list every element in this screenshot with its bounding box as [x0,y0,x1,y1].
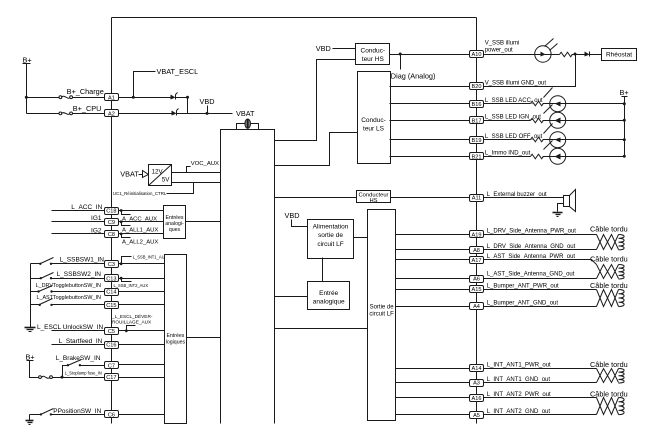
svg-text:C13: C13 [106,276,116,282]
wire C15 to logic box [119,304,165,306]
svg-text:logiques: logiques [166,340,186,346]
svg-text:L_ASTTogglebuttonSW_IN: L_ASTTogglebuttonSW_IN [36,295,101,301]
svg-text:VBD: VBD [316,44,331,53]
wire LED OFF to bus [566,139,625,141]
svg-text:C16: C16 [106,343,116,349]
junction dot ACC bus [623,102,626,105]
stub A_ALL1_AUX [122,222,131,226]
wire switch bus [30,264,32,328]
wire main block to HS2 [275,197,357,199]
regulator U2 12V/5V [149,165,172,186]
wire diode to rheostat box [590,54,602,56]
svg-text:B+_Charge: B+_Charge [67,87,104,96]
wire sortie to A8 [396,249,470,251]
resistor Immo IND [531,154,544,159]
svg-text:L_Startfeed_IN: L_Startfeed_IN [59,338,103,345]
wire sortie to A4 [396,306,470,308]
svg-text:Diag (Analog): Diag (Analog) [391,71,436,80]
svg-text:L_Bumper_ANT_PWR_out: L_Bumper_ANT_PWR_out [487,284,559,290]
svg-text:Câble tordu: Câble tordu [590,360,628,369]
svg-text:B17: B17 [472,118,482,124]
svg-text:C6: C6 [108,413,115,419]
wire switch to C14 [52,291,105,293]
switch brake [67,360,82,367]
wire switch to C3 [52,263,105,265]
module left edge wire [111,18,113,424]
wire diag stub [400,55,402,70]
stub ESCL deverrouillage [127,326,136,331]
svg-text:VBAT: VBAT [236,109,255,118]
connector A14 [470,365,484,373]
connector C5 [105,328,119,335]
wire Startfeed row [52,344,105,346]
junction dot VBD tap [206,112,209,115]
connector C6 [105,411,119,419]
wire ESCL unlock row [52,330,105,332]
svg-text:V_SSB illumi: V_SSB illumi [485,40,520,46]
LED indicator Immo [543,141,566,165]
junction dot Immo bus [623,155,626,158]
wire C5 to logic box [119,330,165,332]
junction dot C18 [120,209,123,212]
resistor LED IGN [531,118,544,123]
wire sortie to A17 [396,259,470,261]
wire LS to B17 [390,120,470,122]
stub VOC_AUX label [187,167,191,173]
wire VBAT_ESCL stub [134,72,156,98]
wire A5 row external [484,414,597,416]
svg-text:sortie de: sortie de [318,232,343,239]
wire ground to switch [30,414,41,416]
wire A19 row external [484,234,597,236]
switch ASTToggle [39,299,53,307]
svg-text:A10: A10 [472,52,482,58]
svg-text:A15: A15 [472,287,482,293]
wire junction up to brake switch [63,366,68,378]
speaker buzzer [564,190,576,212]
fuse on main block top [237,119,259,130]
wire switch to C13 [52,278,105,280]
junction dot OFF bus [623,138,626,141]
svg-text:B19: B19 [472,138,482,144]
svg-text:VBD: VBD [200,97,215,106]
svg-text:L_Bumper_ANT_GND_out: L_Bumper_ANT_GND_out [487,300,559,306]
junction dot C3 [120,262,123,265]
junction dot VBAT_ESCL tap [132,96,135,99]
junction dot C5 [125,329,128,332]
wire C13 to logic box [119,278,165,280]
connector C7 [105,362,119,370]
svg-text:A3: A3 [473,381,480,387]
lamp illumination [535,39,558,63]
svg-text:C3: C3 [108,262,115,268]
wire fuse to A2 [73,113,105,115]
diode D1 [171,93,178,100]
svg-text:A5: A5 [473,413,480,419]
wire sortie to A15 [396,289,470,291]
wire B+ brake stem [30,361,39,378]
connector A2 [105,110,119,118]
svg-text:L_Immo IND_out: L_Immo IND_out [485,151,531,157]
switch DRVToggle [37,286,52,293]
svg-text:A16: A16 [472,396,482,402]
wire IG2 external [52,233,105,235]
node B+ top-left [23,56,32,65]
buffer triangle [143,171,149,178]
connector C13 [105,275,119,283]
wire sortie to A14 [396,368,470,370]
twisted cable 1 [597,235,625,250]
wire A15 row external [484,289,597,291]
block Conducteur LS [358,72,391,164]
svg-text:Entrées: Entrées [166,333,184,339]
connector C16 [105,342,119,349]
svg-text:C14: C14 [106,290,116,296]
svg-text:circuit LF: circuit LF [317,241,343,248]
wire LED IGN to bus [566,120,625,122]
diode D2 [172,109,179,116]
junction dot C8 [120,233,123,236]
svg-text:L_SSBSW2_IN: L_SSBSW2_IN [57,271,102,278]
svg-text:HS: HS [369,198,377,204]
svg-text:B16: B16 [472,102,482,108]
svg-text:IG1: IG1 [91,215,102,222]
wire B+_Charge row left [27,97,60,99]
twisted cable 5 [597,398,625,415]
wire SSBSW1 row [31,263,41,265]
twisted cable 4 [597,369,625,384]
wire C17 to logic box [119,377,165,379]
svg-text:Câble tordu: Câble tordu [590,254,628,263]
svg-text:VBAT: VBAT [120,169,139,178]
wire LED ACC to bus [566,103,625,105]
wire fuse to junction [53,377,63,379]
fuse stoplamp [39,376,53,379]
svg-text:VOC_AUX: VOC_AUX [191,161,219,167]
wire entree analogique to main block [275,296,308,298]
svg-text:Conduc-: Conduc- [361,117,386,124]
wire B+ LED bus [624,97,626,157]
wire B+ stem down to rows [26,64,28,114]
connector C9 [105,219,119,226]
junction dot stoplamp [61,376,64,379]
wire SSBSW2 row [31,278,41,280]
junction dot diag [399,53,402,56]
connector B20 [470,83,484,91]
wire logic box to main block [187,337,221,339]
wire C8 to analog box [119,233,164,235]
wire LS to B20 [390,86,470,88]
connector A4 [470,303,484,311]
wire B+_CPU row left [27,113,60,115]
wire B17 row [484,120,531,122]
svg-text:A19: A19 [472,232,482,238]
wire HS1 to A10 [390,54,470,56]
svg-text:A11: A11 [472,196,482,202]
ground speaker [553,213,563,217]
svg-text:L_ESCL UnlockSW_IN: L_ESCL UnlockSW_IN [37,324,104,331]
block Alimentation sortie de circuit LF [308,220,354,259]
svg-text:A14: A14 [472,366,482,372]
svg-text:L_SSB_INT1_AUX: L_SSB_INT1_AUX [133,254,168,259]
junction dot C13 [120,277,123,280]
fuse B+_Charge [59,96,73,99]
svg-text:power_out: power_out [485,47,513,53]
wire HS2 to A11 [391,197,470,199]
fuse B+_CPU [59,112,73,115]
wire B19 row [484,139,531,141]
connector B21 [470,153,484,161]
diode D3 [585,52,590,57]
wire row2 to VBAT [177,113,233,115]
svg-text:L_DRVTogglebuttonSW_IN: L_DRVTogglebuttonSW_IN [36,283,101,289]
switch SSBSW1 [39,258,53,265]
svg-text:Rhéostat: Rhéostat [606,52,632,59]
svg-text:C8: C8 [108,232,115,238]
wire VBD stub [207,106,209,114]
svg-text:ques: ques [169,227,181,233]
wire diode to corner [176,97,188,99]
svg-text:IG2: IG2 [91,227,102,234]
svg-text:A_ALL1_AUX: A_ALL1_AUX [122,228,158,234]
connector A3 [470,380,484,387]
resistor LED ACC [531,101,544,106]
connector A8 [470,247,484,254]
connector A17 [470,257,484,264]
wire switch to C6 [51,414,105,416]
stub A_ACC_AUX [122,211,131,215]
wire sortie to A16 [396,397,470,399]
svg-text:Câble tordu: Câble tordu [590,281,628,290]
resistor rheostat row [560,52,573,57]
block Entrees analogiques [164,206,186,239]
switch SSBSW2 [40,273,54,280]
wire B20 return loop [484,55,576,87]
wire sortie to A5 [396,414,470,416]
junction dot C9 [120,220,123,223]
svg-text:A2: A2 [108,112,115,118]
wire C7 to logic box [119,364,165,366]
junction dot IGN bus [623,119,626,122]
twisted cable 2 [597,265,625,280]
connector C14 [105,289,119,296]
wire LS to B21 [390,156,470,158]
connector B17 [470,117,484,125]
svg-text:C18: C18 [106,209,116,215]
junction dot rheostat [574,53,577,56]
LED indicator OFF [543,124,566,148]
wire stoplamp row to C17 [63,377,105,379]
wire C16 to logic box [119,344,165,346]
wire VBAT to buffer [139,174,143,176]
svg-text:C17: C17 [106,375,116,381]
wire sortie to A3 [396,382,470,384]
wire switch to C15 [52,304,105,306]
wire resistor to diode [572,54,585,56]
svg-text:teur HS: teur HS [362,56,385,63]
stub L_SSB_INT2_AUX [122,279,132,282]
stub A_ALL2_AUX [122,234,131,238]
svg-text:A1: A1 [108,95,115,101]
wire C6 to logic box [119,414,165,416]
svg-text:A4: A4 [473,304,480,310]
wire alim to entree analogique [322,258,324,282]
connector C18 [105,208,119,215]
svg-text:VBD: VBD [285,211,300,220]
connector A6 [470,276,484,283]
svg-text:C7: C7 [108,363,115,369]
block Entrees logiques [165,255,187,424]
svg-text:C15: C15 [106,303,116,309]
wire C9 to analog box [119,221,164,223]
svg-text:5V: 5V [162,177,170,184]
ground switch bus [25,328,36,332]
svg-text:A6: A6 [473,277,480,283]
junction dot B+ row1 [25,96,28,99]
svg-text:L_Stoplamp fuse_IN: L_Stoplamp fuse_IN [65,370,102,375]
block Rheostat [602,49,637,61]
block Conducteur HS 1 [356,44,390,65]
wire A8 row external [484,249,597,251]
connector C15 [105,302,119,310]
wire A10 to lamp [484,54,535,56]
wire B21 row [484,156,531,158]
connector B16 [470,101,484,108]
svg-text:Sortie de: Sortie de [370,305,395,311]
svg-text:B+_CPU: B+_CPU [73,104,102,113]
wire DRVToggle row [31,291,39,293]
svg-text:VBAT_ESCL: VBAT_ESCL [157,67,199,76]
svg-text:C5: C5 [108,329,115,335]
wire lamp to resistor [552,54,560,56]
label V_SSB illumi power_out [485,40,520,53]
svg-text:UC1_Réinitialisation_CTRL: UC1_Réinitialisation_CTRL [113,191,167,196]
svg-text:circuit LF: circuit LF [369,311,394,317]
wire brake switch to C7 [80,365,105,367]
connector C3 [105,261,119,268]
node B+ brake [26,353,35,362]
svg-text:B+: B+ [620,88,629,97]
svg-text:L_INT_ANT1_PWR_out: L_INT_ANT1_PWR_out [487,362,551,368]
main block U1 outline [221,130,275,424]
wire A1 to diode [119,97,171,99]
svg-text:Entrée: Entrée [319,290,339,297]
ground PPosition [26,415,34,425]
svg-text:Alimentation: Alimentation [313,224,349,231]
connector A1 [105,94,119,102]
connector C8 [105,231,119,239]
wire B16 row [484,103,531,105]
svg-text:PPositionSW_IN: PPositionSW_IN [53,408,101,415]
svg-text:L_BrakeSW_IN: L_BrakeSW_IN [56,355,101,362]
label L_ESCL_DEVERROUILLAGE_AUX [111,313,153,324]
wire A2 to diode [119,113,172,115]
wire IG1 external [52,221,105,223]
twisted cable 3 [597,290,625,307]
wire main block to LS [275,133,358,166]
wire C18 to analog box [119,210,164,212]
wire LS to B19 [390,139,470,141]
wire A11 to speaker [484,197,564,199]
connector A16 [470,395,484,402]
wire A14 row external [484,368,597,370]
svg-text:Conduc-: Conduc- [361,48,386,55]
wire A16 row external [484,397,597,399]
svg-text:B21: B21 [472,154,482,160]
wire main block to sortie box [275,328,368,330]
svg-text:ROUILLAGE_AUX: ROUILLAGE_AUX [112,320,152,325]
block Entree analogique [308,282,350,310]
wire A4 row external [484,306,597,308]
wire L_ACC_IN external [52,210,105,212]
wire sortie to A19 [396,234,470,236]
node B+ LED bus [620,88,629,97]
connector A15 [470,286,484,294]
wire VBD to HS1 [333,48,356,50]
module top edge wire [112,17,477,19]
svg-text:A_ALL2_AUX: A_ALL2_AUX [122,240,158,246]
LED indicator IGN [543,105,566,129]
wire fuse to A1 [73,97,105,99]
svg-text:L_SSB_INT2_AUX: L_SSB_INT2_AUX [114,283,149,288]
svg-text:C9: C9 [108,220,115,226]
svg-text:Câble tordu: Câble tordu [590,225,628,234]
wire regulator out 1 (VOC_AUX) [172,172,221,174]
svg-text:12V: 12V [152,168,164,175]
wire LED Immo to bus [566,156,625,158]
svg-text:L_ACC_IN: L_ACC_IN [71,204,102,211]
wire speaker ground stub [558,204,564,212]
wire A6 row external [484,278,597,280]
wire ASTToggle row [31,304,40,306]
LED indicator ACC [543,88,566,112]
svg-text:A17: A17 [472,258,482,264]
wire A17 row external [484,260,597,265]
resistor LED OFF [531,137,544,142]
wire alim to sortie box [354,237,368,239]
block Sortie de circuit LF [368,210,396,421]
switch PPosition [40,409,54,416]
stub UC1 ctrl [167,183,194,194]
wire analog box to main block [186,221,221,223]
svg-text:L_DRV_Side_Antenna_PWR_out: L_DRV_Side_Antenna_PWR_out [487,229,577,235]
wire corner down to row2 [187,98,189,114]
wire VBD to alim box [292,220,308,227]
svg-text:L_SSBSW1_IN: L_SSBSW1_IN [60,257,105,264]
stub L_SSB_INT1_AUX [122,257,132,264]
connector C17 [105,374,119,382]
connector A5 [470,412,484,419]
svg-text:_L_ESCL_DÉVER-: _L_ESCL_DÉVER- [111,313,153,319]
wire regulator out 2 [172,182,221,184]
svg-text:L_AST_Side_Antenna_GND_out: L_AST_Side_Antenna_GND_out [487,271,575,277]
connector A19 [470,231,484,239]
wire main block to HS1 [275,60,356,141]
block Conducteur HS 2 [357,191,391,205]
svg-text:B20: B20 [472,84,482,90]
svg-text:A8: A8 [473,248,480,254]
wire sortie to A6 [396,278,470,280]
wire A3 row external [484,382,597,384]
connector A11 [470,195,484,202]
svg-text:V_SSB illumi GND_out: V_SSB illumi GND_out [485,81,547,87]
junction dot row1 corner [186,96,189,99]
svg-text:teur LS: teur LS [363,125,385,132]
module right edge wire [476,18,478,424]
connector B19 [470,137,484,144]
wire C14 to logic box [119,291,165,293]
svg-text:analogique: analogique [313,298,345,305]
